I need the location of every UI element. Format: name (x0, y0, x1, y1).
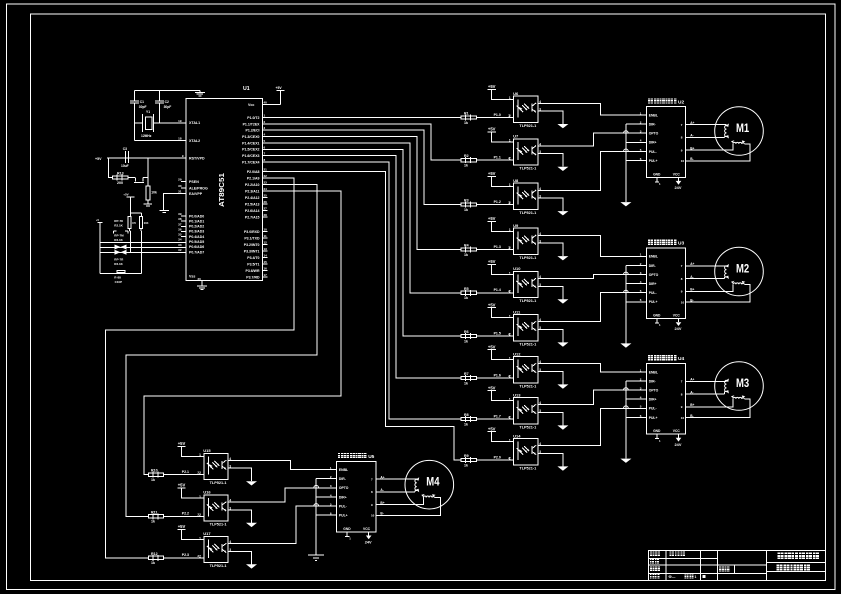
svg-text:2: 2 (508, 374, 510, 378)
svg-text:1k: 1k (464, 339, 468, 343)
svg-text:P2.7/A15: P2.7/A15 (245, 216, 260, 220)
wire P1.5 to R6 (262, 149, 461, 336)
svg-text:39: 39 (178, 212, 182, 216)
svg-text:+5V: +5V (488, 216, 496, 221)
wire hop U5 pin3 (314, 485, 319, 487)
wire hop U4 pin3 (624, 388, 629, 390)
ground opto U9 (557, 256, 568, 260)
wire emitter U14 to ground (538, 453, 563, 466)
svg-text:P1.4/CEX1: P1.4/CEX1 (242, 141, 259, 145)
svg-text:OPTO: OPTO (649, 273, 659, 277)
svg-text:TLP521-1: TLP521-1 (519, 256, 536, 260)
resistor R12 (164, 557, 204, 559)
wire opto U15 collector to U5 pin1 (228, 461, 337, 470)
optocoupler U12 (514, 357, 538, 383)
optocoupler U17 (204, 536, 228, 562)
svg-text:RP-7R: RP-7R (114, 257, 124, 261)
svg-text:P3.6/WR: P3.6/WR (245, 269, 259, 273)
svg-text:R2.1K: R2.1K (114, 224, 123, 228)
svg-text:10: 10 (681, 300, 685, 304)
resistor R10 (164, 474, 204, 476)
svg-text:P3.1/TXD: P3.1/TXD (244, 236, 260, 240)
wire XTAL1 (154, 122, 186, 124)
resistor R14 (146, 186, 150, 200)
wire ground bus U4 (625, 381, 627, 459)
svg-text:P1.6/CEX3: P1.6/CEX3 (242, 154, 259, 158)
svg-text:+5V: +5V (488, 385, 496, 390)
svg-text:P1.3: P1.3 (494, 245, 501, 249)
svg-text:+5V: +5V (488, 302, 496, 307)
svg-text:U2: U2 (678, 99, 684, 105)
svg-text:GND: GND (653, 314, 661, 318)
svg-text:19: 19 (178, 119, 182, 123)
wire opto2 collector to U2 pin3 (538, 133, 647, 146)
wire emitter U12 to ground (538, 371, 563, 384)
svg-text:R2.1K: R2.1K (114, 238, 123, 242)
motor M4 (405, 460, 454, 509)
ground opto U17 (246, 564, 257, 568)
svg-text:ENBL: ENBL (649, 370, 658, 374)
svg-text:P0.6/AD6: P0.6/AD6 (189, 245, 204, 249)
svg-text:P2.0/A8: P2.0/A8 (247, 170, 260, 174)
wire P1.0 to R1 (262, 117, 461, 119)
wire opto U16 collector to U5 pin3 (228, 488, 337, 502)
svg-text:U5: U5 (368, 454, 374, 460)
svg-text:TLP521-1: TLP521-1 (519, 299, 536, 303)
svg-text:14: 14 (264, 254, 268, 258)
svg-text:U11: U11 (513, 309, 521, 314)
svg-text:TLP521-1: TLP521-1 (519, 425, 536, 429)
wire P1.4 to R5 (262, 143, 461, 293)
svg-text:P1.5: P1.5 (494, 331, 501, 335)
resistor R9 (476, 459, 513, 461)
svg-text:24V: 24V (675, 326, 682, 331)
svg-text:P1.2: P1.2 (494, 200, 501, 204)
svg-text:+5V: +5V (488, 426, 496, 431)
svg-text:C10P: C10P (115, 280, 123, 284)
svg-text:C3: C3 (123, 147, 127, 151)
wire P2.1 to R12 (106, 178, 294, 558)
svg-text:XTAL2: XTAL2 (189, 139, 200, 143)
svg-text:24V: 24V (675, 185, 682, 190)
svg-text:+5V: +5V (123, 193, 128, 197)
svg-text:+5V: +5V (178, 483, 186, 488)
wire opto9 collector to U4 pin5 (538, 408, 647, 445)
svg-text:30pF: 30pF (164, 105, 172, 109)
svg-text:24: 24 (264, 187, 268, 191)
svg-text:P0.4/AD4: P0.4/AD4 (189, 235, 204, 239)
svg-text:P0.2/AD2: P0.2/AD2 (189, 225, 204, 229)
driver IC U2 (647, 107, 686, 178)
ground opto U12 (557, 384, 568, 388)
svg-text:DIR+: DIR+ (649, 141, 657, 145)
wire bottom rail P0 (100, 273, 141, 275)
wire hop U2 pin5 (624, 149, 629, 151)
svg-text:AT89C51: AT89C51 (217, 172, 226, 207)
svg-text:12MHz: 12MHz (141, 134, 152, 138)
svg-text:2: 2 (508, 156, 510, 160)
svg-text:DIR-: DIR- (649, 264, 656, 268)
wire opto5 collector to U3 pin3 (538, 275, 647, 279)
svg-text:R4: R4 (464, 244, 469, 248)
wire emitter U16 to ground (228, 510, 251, 523)
svg-text:C1: C1 (140, 100, 144, 104)
title block name (670, 552, 675, 557)
svg-text:1k: 1k (464, 164, 468, 168)
wire cap tops (131, 212, 142, 214)
title block drawing name (777, 564, 783, 570)
svg-text:PSEN: PSEN (189, 180, 199, 184)
wire ground bus U2 (625, 124, 627, 202)
wire hop U2 pin3 (624, 131, 629, 133)
svg-text:EA/VPP: EA/VPP (189, 192, 203, 196)
title block label check (650, 559, 654, 563)
wire hop U3 pin5 (624, 290, 629, 292)
svg-text:TLP521-1: TLP521-1 (210, 481, 227, 485)
svg-text:22: 22 (264, 174, 268, 178)
optocoupler U6 (514, 96, 538, 122)
wire opto4 collector to U3 pin1 (538, 235, 647, 256)
wire opto7 collector to U4 pin1 (538, 364, 647, 372)
wire hop U3 pin3 (624, 272, 629, 274)
svg-text:PUL-: PUL- (649, 150, 657, 154)
svg-text:P1.0: P1.0 (494, 113, 501, 117)
svg-text:TLP521-1: TLP521-1 (519, 466, 536, 470)
ground opto U8 (557, 211, 568, 215)
svg-text:TLP521-1: TLP521-1 (519, 342, 536, 346)
svg-text:2: 2 (197, 471, 199, 475)
svg-text:P2.2/A10: P2.2/A10 (245, 183, 260, 187)
svg-text:P1.7/CEX4: P1.7/CEX4 (242, 160, 259, 164)
svg-text:P3.3/INT1: P3.3/INT1 (244, 249, 260, 253)
diode pair bowtie 1 (115, 245, 121, 250)
svg-text:10uF: 10uF (121, 164, 129, 168)
svg-text:PUL+: PUL+ (649, 416, 658, 420)
optocoupler U16 (204, 495, 228, 521)
optocoupler U8 (514, 183, 538, 209)
svg-text:R5: R5 (464, 287, 469, 291)
svg-text:24V: 24V (365, 540, 372, 545)
svg-text:40: 40 (264, 100, 268, 104)
svg-text:20: 20 (198, 277, 202, 281)
svg-text:2: 2 (197, 554, 199, 558)
svg-text:DIR-: DIR- (339, 477, 346, 481)
ground opto U14 (557, 466, 568, 470)
resistor R6 (476, 335, 513, 337)
svg-text:OPTO: OPTO (339, 486, 349, 490)
resistor R8 (476, 418, 513, 420)
svg-text:+5V: +5V (488, 84, 496, 89)
wire ground bus U3 (625, 265, 627, 343)
svg-text:10: 10 (264, 228, 268, 232)
svg-text:U8: U8 (513, 178, 519, 183)
svg-text:C5: C5 (132, 221, 136, 225)
svg-text:200: 200 (117, 181, 123, 185)
ground opto U15 (246, 481, 257, 485)
title block scale label (719, 567, 724, 572)
wire P1.7 to R8 (262, 162, 461, 419)
wire P0.5 (100, 242, 186, 244)
svg-text:TLP521-1: TLP521-1 (519, 124, 536, 128)
svg-text:1k: 1k (464, 208, 468, 212)
resistor R3 (476, 204, 513, 206)
svg-text:GND: GND (653, 172, 661, 176)
svg-text:PUL+: PUL+ (649, 300, 658, 304)
wire P1.3 to R4 (262, 137, 461, 250)
svg-text:U10: U10 (513, 266, 521, 271)
svg-text:2: 2 (197, 512, 199, 516)
svg-text:R8: R8 (464, 413, 469, 417)
ground Vss pin 20 (201, 281, 203, 286)
wire crystal left (134, 122, 142, 124)
svg-text:M3: M3 (736, 378, 749, 390)
switch S1 reset (128, 177, 135, 179)
svg-text:26: 26 (264, 200, 268, 204)
svg-text:R12: R12 (151, 552, 158, 556)
svg-text:DIR+: DIR+ (649, 282, 657, 286)
diode pair bowtie 2 (115, 250, 121, 255)
ground R14 (144, 203, 153, 205)
svg-text:M1: M1 (736, 123, 750, 135)
svg-text:+5V: +5V (488, 344, 496, 349)
capacitor C6 (140, 216, 143, 228)
resistor R4 (476, 249, 513, 251)
ground driver U3 (620, 343, 631, 347)
capacitor C5 (128, 216, 131, 228)
svg-text:C2: C2 (165, 100, 169, 104)
wire emitter U10 to ground (538, 286, 563, 299)
svg-text:1k: 1k (151, 520, 155, 524)
resistor R5 (476, 292, 513, 294)
svg-text:U1: U1 (243, 86, 250, 92)
svg-text:1k: 1k (151, 561, 155, 565)
svg-text:+5V: +5V (178, 441, 186, 446)
svg-text:P2.3/A11: P2.3/A11 (245, 190, 259, 194)
svg-text:P2.3: P2.3 (182, 553, 189, 557)
ground opto U11 (557, 342, 568, 346)
svg-text:2: 2 (508, 114, 510, 118)
wire opto6 collector to U3 pin5 (538, 293, 647, 322)
wire emitter U11 to ground (538, 329, 563, 342)
svg-text:U17: U17 (203, 531, 211, 536)
svg-text:P2.2: P2.2 (182, 512, 189, 516)
wire emitter U7 to ground (538, 154, 563, 167)
optocoupler U11 (514, 315, 538, 341)
wire hop U5 pin5 (314, 504, 319, 506)
wire left rail P0 (99, 223, 101, 274)
svg-text:+5V: +5V (488, 171, 496, 176)
resistor R11 (164, 515, 204, 517)
svg-text:104: 104 (144, 221, 149, 225)
wire P1.6 to R7 (262, 156, 461, 378)
svg-text:P0.7/AD7: P0.7/AD7 (189, 250, 204, 254)
svg-text:+5V: +5V (178, 524, 186, 529)
svg-text:R13: R13 (117, 172, 124, 176)
svg-text:VCC: VCC (673, 429, 681, 433)
svg-text:P2.1/A9: P2.1/A9 (247, 177, 260, 181)
svg-text:U15: U15 (203, 448, 211, 453)
wire P0.7 (100, 251, 186, 253)
svg-text:DIR-: DIR- (649, 379, 656, 383)
motor M2 (715, 247, 764, 296)
capacitor C7 (117, 270, 125, 272)
wire emitter U17 to ground (228, 551, 251, 564)
svg-text:VCC: VCC (673, 314, 681, 318)
power +5V for U1 VCC (262, 104, 280, 106)
svg-text:P1.7: P1.7 (494, 414, 501, 418)
svg-text:32: 32 (178, 248, 182, 252)
svg-text:21: 21 (264, 168, 268, 172)
svg-text:1k: 1k (464, 463, 468, 467)
svg-text:R3: R3 (464, 199, 469, 203)
svg-text:P2.5/A13: P2.5/A13 (245, 203, 260, 207)
wire hop U4 pin5 (624, 406, 629, 408)
svg-text:1k: 1k (464, 121, 468, 125)
title block school name (778, 553, 784, 559)
svg-text:R11: R11 (151, 510, 157, 514)
wire RST rail (107, 157, 186, 159)
svg-text:1k: 1k (464, 381, 468, 385)
svg-text:RP-78: RP-78 (114, 219, 123, 223)
svg-text:1k: 1k (464, 422, 468, 426)
svg-text:1k: 1k (464, 296, 468, 300)
svg-text:2: 2 (508, 332, 510, 336)
svg-text:ALE/PROG: ALE/PROG (189, 186, 208, 190)
wire P1.1 to R2 (262, 124, 461, 160)
svg-text:PUL+: PUL+ (649, 159, 658, 163)
svg-text:P2.1: P2.1 (182, 470, 189, 474)
svg-text:25: 25 (264, 194, 268, 198)
svg-text:U14: U14 (513, 433, 521, 438)
wire +5V down to R13 (109, 158, 113, 177)
svg-text:P1.1/T2EX: P1.1/T2EX (243, 122, 261, 126)
wire C6 bottom (140, 229, 142, 231)
svg-text:U7: U7 (513, 134, 519, 139)
svg-text:+5V: +5V (488, 127, 496, 132)
svg-text:R9: R9 (464, 454, 469, 458)
wire P2.0 to R9 (262, 172, 461, 460)
wire emitter U15 to ground (228, 468, 251, 481)
motor M3 (715, 362, 764, 411)
svg-text:28: 28 (264, 213, 268, 217)
wire P0.6 (100, 247, 186, 249)
svg-text:1k: 1k (151, 478, 155, 482)
svg-text:2: 2 (508, 456, 510, 460)
motor M1 (715, 107, 764, 156)
ground driver U4 (620, 459, 631, 463)
svg-text:Vss: Vss (189, 275, 195, 279)
svg-text:27: 27 (264, 207, 268, 211)
svg-text:P1.5/CEX2: P1.5/CEX2 (242, 148, 259, 152)
optocoupler U14 (514, 439, 538, 465)
svg-text:P0.5/AD5: P0.5/AD5 (189, 240, 204, 244)
wire opto1 collector to U2 pin1 (538, 103, 647, 115)
svg-text:VCC: VCC (363, 527, 371, 531)
svg-text:33: 33 (178, 243, 182, 247)
svg-text:ENBL: ENBL (649, 255, 658, 259)
svg-text:VCC: VCC (673, 172, 681, 176)
svg-text:2: 2 (508, 246, 510, 250)
svg-text:2: 2 (508, 415, 510, 419)
svg-text:DIR+: DIR+ (649, 398, 657, 402)
svg-text:U9: U9 (513, 223, 519, 228)
svg-text:TLP521-1: TLP521-1 (210, 564, 227, 568)
wire P2.2 to R11 (126, 185, 317, 517)
resistor network RP2 (114, 230, 117, 232)
svg-text:Φ—: Φ— (669, 575, 676, 579)
ground opto U6 (557, 124, 568, 128)
svg-text:2: 2 (508, 289, 510, 293)
title block frame (648, 550, 825, 580)
svg-text:OPTO: OPTO (649, 389, 659, 393)
svg-text:10: 10 (371, 514, 375, 518)
svg-text:P1.1: P1.1 (494, 156, 501, 160)
op-amp U1 microcontroller AT89C51 (186, 98, 262, 280)
wire ground bus U5 (315, 479, 317, 555)
svg-text:30pF: 30pF (139, 105, 147, 109)
svg-text:11: 11 (264, 234, 268, 238)
optocoupler U7 (514, 139, 538, 165)
svg-text:23: 23 (264, 181, 268, 185)
ground driver U5 (308, 554, 324, 556)
capacitor C3 reset (125, 151, 127, 163)
wire P1.2 to R3 (262, 130, 461, 204)
svg-text:TLP521-1: TLP521-1 (519, 211, 536, 215)
svg-text:PUL+: PUL+ (339, 514, 348, 518)
svg-text:GND: GND (343, 527, 351, 531)
svg-text:16: 16 (264, 267, 268, 271)
optocoupler U15 (204, 453, 228, 479)
wire RST pulldown (147, 158, 149, 186)
wire emitter U13 to ground (538, 412, 563, 425)
svg-text:PUL-: PUL- (339, 504, 347, 508)
svg-text:PUL-: PUL- (649, 407, 657, 411)
optocoupler U9 (514, 228, 538, 254)
svg-text:P0.1/AD1: P0.1/AD1 (189, 219, 204, 223)
svg-text:1: 1 (695, 575, 697, 579)
wire C5 bottom (129, 229, 131, 231)
driver IC U3 (647, 248, 686, 319)
wire P2.3 to R10 (144, 191, 341, 475)
resistor R1 (476, 117, 513, 119)
svg-text:U6: U6 (513, 91, 519, 96)
svg-text:1k: 1k (464, 253, 468, 257)
svg-text:+5V: +5V (276, 86, 283, 90)
svg-text:OPTO: OPTO (649, 132, 659, 136)
svg-text:R10: R10 (151, 469, 158, 473)
svg-text:18: 18 (178, 136, 182, 140)
svg-text:TLP521-1: TLP521-1 (519, 167, 536, 171)
svg-text:12: 12 (264, 241, 268, 245)
svg-text:P1.0/T2: P1.0/T2 (247, 116, 259, 120)
svg-text:ENBL: ENBL (649, 113, 658, 117)
svg-text:10: 10 (681, 159, 685, 163)
svg-text:M2: M2 (736, 263, 749, 275)
title block label approve (650, 566, 655, 571)
wire opto U17 collector to U5 pin5 (228, 506, 337, 544)
resistor R7 (476, 377, 513, 379)
capacitor C2 (159, 90, 161, 101)
svg-text:RP-7M: RP-7M (114, 233, 124, 237)
driver IC U4 (647, 364, 686, 435)
resistor R13 (113, 176, 128, 179)
svg-text:DIR-: DIR- (649, 123, 656, 127)
svg-text:P3.4/T0: P3.4/T0 (247, 256, 259, 260)
svg-text:P3.2/INT0: P3.2/INT0 (244, 243, 260, 247)
svg-text:35: 35 (178, 233, 182, 237)
svg-text:P3.0/RXD: P3.0/RXD (244, 230, 260, 234)
wire EA to ground (163, 194, 186, 211)
